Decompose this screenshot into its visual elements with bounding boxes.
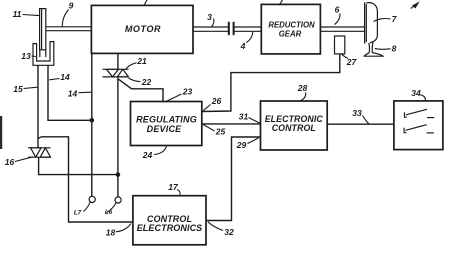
svg-text:34: 34 — [411, 88, 421, 98]
label 13 — [21, 51, 36, 61]
flywheel 7 — [365, 2, 378, 43]
svg-text:25: 25 — [215, 127, 226, 137]
motor box — [91, 5, 193, 53]
reduction gear label — [268, 21, 315, 39]
svg-text:33: 33 — [352, 108, 362, 118]
label 8 — [375, 44, 397, 54]
svg-text:REDUCTION: REDUCTION — [268, 21, 315, 30]
svg-text:11: 11 — [13, 9, 22, 19]
svg-text:28: 28 — [297, 83, 308, 93]
svg-text:31: 31 — [239, 112, 249, 122]
label 29 — [236, 138, 259, 150]
wire 29/32 (electronic control to control electronics) — [206, 137, 261, 221]
label 6 — [335, 5, 340, 25]
svg-text:26: 26 — [211, 96, 222, 106]
junction dot — [116, 172, 121, 177]
electronic control label — [265, 114, 324, 133]
switch upper — [405, 109, 435, 117]
coupling — [229, 22, 234, 35]
label 14 second — [68, 89, 91, 99]
label 22 — [129, 77, 152, 87]
control electronics box — [133, 196, 206, 245]
svg-text:24: 24 — [142, 150, 153, 160]
junction dot — [90, 118, 95, 123]
label 23 — [167, 87, 193, 102]
svg-text:29: 29 — [236, 140, 247, 150]
terminal L6 — [107, 197, 122, 213]
svg-text:CONTROL: CONTROL — [272, 123, 316, 133]
label 24 — [142, 146, 167, 160]
svg-text:6: 6 — [335, 5, 340, 15]
svg-text:16: 16 — [5, 157, 15, 167]
switch box 34 — [394, 101, 443, 150]
svg-text:22: 22 — [141, 77, 152, 87]
wire: triac 21 to node, down to terminal L6 — [117, 77, 119, 197]
shaft into gear — [235, 27, 262, 31]
gate wire to regulating device — [119, 79, 164, 101]
label 9 — [62, 1, 73, 27]
svg-text:32: 32 — [224, 227, 234, 237]
label 34 — [411, 88, 425, 101]
label 18 — [106, 224, 131, 238]
regulating device label — [136, 114, 197, 134]
control electronics label — [137, 214, 203, 233]
switch lower — [404, 125, 434, 133]
wire 15 (left cup lead down to triac 16) — [37, 65, 39, 147]
label 28 — [297, 83, 308, 101]
wire 25/31 (regulating device to electronic control) — [202, 123, 261, 125]
label 3 — [207, 12, 214, 27]
label 7 — [374, 14, 398, 24]
shaft 6 — [320, 27, 364, 31]
svg-text:21: 21 — [136, 56, 147, 66]
svg-text:9: 9 — [69, 1, 74, 11]
label 32 — [208, 222, 234, 237]
regulating device box — [131, 102, 202, 146]
leader 5 (cropped top) — [144, 0, 147, 6]
wire 14 (right cup lead) — [48, 65, 92, 120]
electronic control box — [261, 101, 328, 150]
triac 16 — [28, 148, 51, 157]
label 4 — [240, 32, 253, 51]
svg-text:17: 17 — [168, 182, 179, 192]
svg-text:18: 18 — [106, 228, 116, 238]
wire 18 (branch to control electronics) — [38, 137, 133, 222]
svg-text:15: 15 — [13, 84, 23, 94]
cup 13 — [33, 42, 54, 66]
svg-text:DEVICE: DEVICE — [147, 124, 183, 134]
label 31 — [239, 112, 260, 124]
svg-text:GEAR: GEAR — [279, 30, 302, 39]
label 26 — [203, 96, 221, 111]
svg-text:14: 14 — [60, 72, 70, 82]
wire 26 (sensor to regulating device) — [202, 54, 340, 112]
label 16 — [5, 157, 33, 167]
disc 11 — [40, 9, 46, 50]
label 14 first — [49, 72, 70, 82]
arrow 1 top right — [411, 1, 420, 8]
svg-text:L7: L7 — [74, 210, 82, 217]
svg-text:14: 14 — [68, 89, 78, 99]
label 15 — [13, 84, 37, 94]
wire: triac 16 bottom to node on L6 line — [39, 157, 118, 174]
sensor 27 — [335, 36, 345, 54]
shaft 9 — [46, 27, 92, 31]
label 33 — [352, 108, 369, 124]
thyristor 21 (triac) — [103, 53, 129, 77]
svg-text:8: 8 — [392, 44, 397, 54]
label 21 — [126, 56, 147, 69]
svg-text:ELECTRONICS: ELECTRONICS — [137, 223, 203, 233]
scan smudge left edge — [0, 116, 2, 149]
wire 33 (electronic control to switch box) — [327, 123, 394, 125]
shaft 3 — [193, 27, 228, 31]
svg-text:13: 13 — [21, 51, 31, 61]
reduction gear box — [261, 4, 320, 54]
stand 8 — [364, 42, 383, 56]
svg-text:L6: L6 — [105, 209, 113, 216]
label 11 — [13, 9, 40, 19]
svg-text:23: 23 — [182, 87, 193, 97]
label 17 — [168, 182, 180, 195]
label 27 — [342, 54, 358, 67]
svg-text:REGULATING: REGULATING — [136, 114, 197, 124]
wire 14 vertical (motor left lead down to terminal L7) — [91, 53, 93, 196]
svg-text:MOTOR: MOTOR — [125, 24, 161, 34]
svg-text:4: 4 — [240, 41, 246, 51]
terminal L7 — [84, 196, 96, 211]
label 25 — [203, 124, 225, 136]
svg-text:3: 3 — [207, 12, 212, 22]
leader 5 above gear (cropped) — [279, 0, 283, 5]
